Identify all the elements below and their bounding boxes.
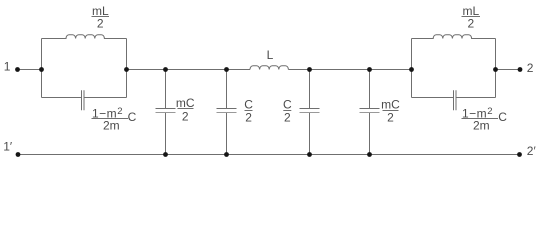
value label (1-m^2)/2m C (right tank) [462,106,508,133]
wire: right tank left side [411,39,413,98]
svg-text:2: 2 [527,61,534,75]
capacitor (1-m^2)/2m C (right tank, bottom branch) [412,90,496,110]
wire: inductor L to right section (top line) [288,69,411,71]
value label mC/2 (branch 1) [176,96,195,123]
junction: branch 4 top [367,67,372,72]
junction: branch 2 top [224,67,229,72]
svg-text:L: L [267,48,274,62]
svg-text:2: 2 [182,109,189,123]
svg-text:2m: 2m [103,119,120,133]
svg-text:1: 1 [4,60,11,74]
terminal 1 dot [15,67,20,72]
svg-text:mC: mC [381,98,400,112]
inductor mL/2 (right tank, top branch) [412,35,496,39]
svg-text:2: 2 [467,17,474,31]
value label mL/2 (right tank) [462,4,481,31]
value label C/2 (branch 3) [283,98,292,125]
svg-text:1′: 1′ [3,139,13,153]
junction: branch 3 top [307,67,312,72]
capacitor C/2 (shunt branch 2) [217,70,237,155]
inductor mL/2 (left tank, top branch) [42,35,127,39]
value label mC/2 (branch 4) [381,98,400,125]
svg-text:2: 2 [245,111,252,125]
svg-text:2m: 2m [473,119,490,133]
svg-text:2: 2 [97,17,104,31]
junction: left tank left node [39,67,44,72]
value label mL/2 (left tank) [92,4,110,31]
capacitor (1-m^2)/2m C (left tank, bottom branch) [42,90,127,110]
wire: terminal 1 to left tank [18,69,42,71]
wire: right tank to terminal 2 [496,69,521,71]
wire: left tank left side [41,39,43,98]
wire: left tank right side [126,39,128,98]
svg-text:C: C [128,110,137,124]
svg-text:2: 2 [284,111,291,125]
svg-text:C: C [283,98,292,112]
junction: right tank right node [493,67,498,72]
capacitor mC/2 (shunt branch 4) [360,70,380,155]
svg-text:2: 2 [387,111,394,125]
wire: left tank to node A (top line) [127,69,251,71]
value label C/2 (branch 2) [244,98,253,125]
capacitor mC/2 (shunt branch 1) [156,70,176,155]
junction: branch 1 top [163,67,168,72]
svg-text:2′: 2′ [527,144,537,158]
svg-text:C: C [498,110,507,124]
terminal 2' dot [517,152,522,157]
junction: right tank left node [409,67,414,72]
capacitor C/2 (shunt branch 3) [300,70,320,155]
wire: right tank right side [495,39,497,98]
terminal 2 dot [518,67,523,72]
junction: branch 1 bottom [163,152,168,157]
junction: branch 2 bottom [224,152,229,157]
terminal 1' dot [16,152,21,157]
value label (1-m^2)/2m C (left tank) [92,106,137,133]
junction: branch 4 bottom [367,152,372,157]
junction: branch 3 bottom [307,152,312,157]
junction: left tank right node [124,67,129,72]
wire: bottom rail 1' to 2' [18,154,520,156]
inductor L (series, middle) [250,66,288,70]
svg-text:C: C [244,98,253,112]
